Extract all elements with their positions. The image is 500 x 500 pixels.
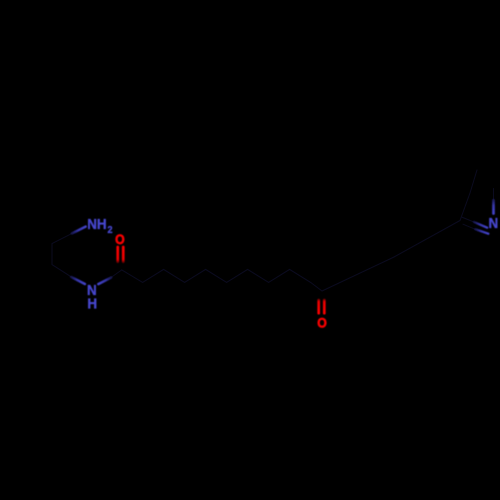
- svg-text:N: N: [489, 214, 499, 231]
- svg-text:2: 2: [108, 224, 113, 235]
- svg-text:NH: NH: [87, 215, 106, 232]
- svg-text:O: O: [317, 315, 327, 331]
- svg-text:O: O: [115, 231, 125, 247]
- svg-text:H: H: [87, 295, 97, 312]
